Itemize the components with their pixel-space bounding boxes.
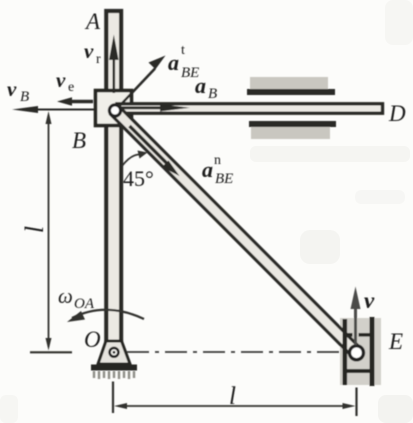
svg-text:v: v	[364, 288, 375, 313]
bottom dimension line l	[113, 382, 357, 417]
svg-text:B: B	[72, 128, 86, 153]
vertical bar OA	[106, 11, 121, 342]
horizontal bar BD	[117, 104, 383, 113]
svg-text:45°: 45°	[123, 166, 154, 191]
pin at E	[350, 346, 364, 360]
vertical dimension line l (left)	[30, 111, 72, 352]
svg-text:a: a	[202, 157, 213, 182]
svg-text:e: e	[68, 80, 74, 95]
svg-text:l: l	[229, 383, 236, 410]
pin at B	[109, 105, 120, 116]
svg-text:t: t	[181, 43, 185, 58]
pivot base triangle at O	[98, 341, 130, 364]
svg-text:l: l	[20, 226, 49, 233]
ground bar at O	[91, 365, 137, 371]
E guide left rail	[343, 319, 348, 385]
guide slot lower dark bar	[249, 121, 336, 127]
svg-text:ω: ω	[58, 284, 73, 308]
gray guide block at E	[340, 318, 381, 385]
omega_OA curved arrow	[67, 310, 144, 322]
45-degree arc arrow	[122, 151, 148, 167]
svg-text:a: a	[168, 50, 179, 75]
svg-text:v: v	[56, 68, 66, 92]
svg-text:r: r	[96, 52, 101, 67]
dash-dot centerline O to E	[127, 351, 344, 353]
svg-text:A: A	[84, 9, 101, 34]
E slider top cap	[346, 333, 370, 337]
svg-text:a: a	[195, 73, 206, 98]
vector a_BE_t (arrow up-right at 45)	[119, 56, 166, 107]
slider block B	[96, 91, 132, 126]
pin at O	[110, 348, 119, 357]
svg-text:B: B	[208, 86, 217, 102]
svg-text:B: B	[20, 89, 29, 105]
E guide right rail	[370, 317, 375, 386]
guide slot lower gray block	[251, 127, 330, 139]
guide slot upper dark bar	[247, 89, 335, 95]
vector v_e (short thick arrow left)	[57, 97, 93, 105]
vector v (arrow up at E)	[351, 287, 361, 346]
E slider bottom cap	[343, 369, 371, 373]
svg-text:n: n	[214, 153, 221, 168]
vector a_BE_n (arrow along diagonal bar)	[130, 126, 180, 176]
ground hatching at O	[94, 371, 134, 379]
svg-text:E: E	[388, 329, 403, 354]
svg-text:OA: OA	[74, 296, 95, 312]
svg-text:D: D	[388, 101, 406, 126]
vector v_r (arrow up inside bar)	[109, 35, 119, 94]
diagonal bar BE	[111, 106, 361, 357]
vector v_B (long arrow left)	[12, 106, 94, 113]
guide slot upper gray block (at D)	[250, 77, 328, 90]
vector a_B (arrow right inside bar BD)	[121, 104, 190, 111]
svg-text:v: v	[7, 77, 17, 101]
svg-text:v: v	[84, 39, 94, 63]
svg-text:O: O	[84, 327, 101, 352]
svg-text:BE: BE	[215, 171, 233, 187]
